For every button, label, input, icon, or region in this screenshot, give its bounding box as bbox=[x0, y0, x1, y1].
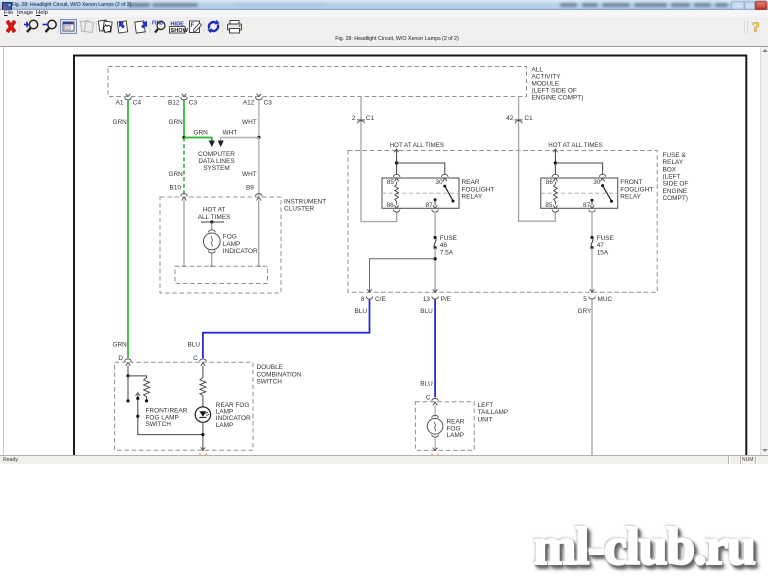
connector 5 MUC bbox=[583, 289, 612, 303]
svg-text:GRY: GRY bbox=[578, 308, 593, 315]
svg-text:COMBINATION: COMBINATION bbox=[257, 371, 302, 378]
relay1 coil bbox=[395, 182, 399, 205]
svg-text:(LEFT SIDE OF: (LEFT SIDE OF bbox=[532, 87, 577, 94]
wire relay2 pin87 to fuse 47 bbox=[591, 212, 593, 238]
node: branch junction bbox=[433, 257, 436, 260]
REAR FOGLIGHT RELAY box U1 bbox=[382, 178, 494, 209]
svg-text:C/E: C/E bbox=[375, 296, 386, 303]
node: relay2 feed junction bbox=[554, 161, 557, 164]
page frame bbox=[74, 56, 746, 456]
gray wire down from 5 MUC bbox=[578, 300, 593, 456]
green wire to computer data arrow bbox=[184, 130, 215, 148]
LEFT TAILLAMP UNIT box bbox=[415, 402, 508, 451]
svg-text:C4: C4 bbox=[133, 100, 142, 107]
svg-text:B9: B9 bbox=[246, 185, 254, 192]
wire fuse 47 down bbox=[591, 248, 593, 293]
relay1 pin86 terminal bbox=[393, 205, 400, 212]
svg-text:85: 85 bbox=[387, 179, 395, 186]
svg-text:5: 5 bbox=[583, 296, 587, 303]
svg-text:LAMP: LAMP bbox=[447, 432, 465, 439]
svg-text:C3: C3 bbox=[189, 100, 198, 107]
svg-text:FOGLIGHT: FOGLIGHT bbox=[620, 186, 653, 193]
zoom-in icon bbox=[24, 20, 38, 32]
svg-text:C1: C1 bbox=[524, 115, 533, 122]
svg-text:HOT AT: HOT AT bbox=[203, 207, 226, 214]
terminal D bbox=[118, 355, 131, 366]
svg-text:FOGLIGHT: FOGLIGHT bbox=[462, 186, 495, 193]
terminal B12/C3 bbox=[168, 94, 197, 107]
disabled pages icon bbox=[80, 20, 93, 32]
page with up-right arrow icon bbox=[135, 21, 147, 33]
relay2 switch arm bbox=[591, 184, 614, 205]
svg-text:BLU: BLU bbox=[420, 381, 433, 388]
zoom-out icon bbox=[43, 20, 57, 32]
svg-text:?: ? bbox=[752, 21, 760, 35]
inner box wire end ticks bbox=[182, 265, 260, 267]
rear fog lamp bbox=[427, 405, 464, 450]
pressed window button bbox=[61, 20, 77, 34]
svg-text:DOUBLE: DOUBLE bbox=[257, 364, 284, 371]
svg-text:42: 42 bbox=[506, 115, 514, 122]
wire feed to pin30 bbox=[397, 163, 445, 175]
svg-text:B10: B10 bbox=[170, 185, 182, 192]
fuse F46 bbox=[434, 235, 458, 256]
svg-text:MODULE: MODULE bbox=[532, 80, 560, 87]
relay2 coil bbox=[554, 182, 558, 205]
wire feed to pin30 bbox=[555, 163, 602, 175]
pages with hand icon bbox=[98, 20, 112, 33]
wire 42|C1 feed bbox=[519, 97, 556, 222]
svg-text:C: C bbox=[426, 394, 431, 401]
svg-text:A1: A1 bbox=[116, 100, 124, 107]
svg-text:C: C bbox=[193, 355, 198, 362]
INSTRUMENT CLUSTER box bbox=[160, 197, 326, 293]
separators bbox=[20, 21, 223, 33]
cluster internal wires bbox=[183, 201, 185, 267]
status bar bbox=[0, 455, 768, 464]
connector 8 C/E bbox=[361, 289, 387, 303]
svg-text:COMPT): COMPT) bbox=[663, 195, 688, 202]
svg-text:GRN: GRN bbox=[113, 342, 128, 349]
svg-text:B12: B12 bbox=[168, 100, 180, 107]
svg-text:87: 87 bbox=[426, 202, 434, 209]
svg-text:SWITCH: SWITCH bbox=[146, 421, 172, 428]
svg-text:7.5A: 7.5A bbox=[440, 249, 454, 256]
svg-text:REAR: REAR bbox=[462, 179, 480, 186]
svg-text:BLU: BLU bbox=[355, 308, 368, 315]
terminal B10 bbox=[181, 194, 188, 201]
node: white junction bbox=[257, 136, 260, 139]
svg-text:GRN: GRN bbox=[169, 171, 184, 178]
svg-text:INDICATOR: INDICATOR bbox=[223, 248, 258, 255]
caption text bbox=[26, 36, 768, 45]
svg-text:8: 8 bbox=[361, 296, 365, 303]
terminal A12/C3 bbox=[243, 94, 272, 107]
svg-text:46: 46 bbox=[440, 242, 448, 249]
COMPUTER DATA LINES SYSTEM label bbox=[198, 151, 235, 172]
refresh icon bbox=[209, 22, 218, 31]
svg-text:FOG: FOG bbox=[223, 234, 237, 241]
white wire to computer data arrow bbox=[218, 130, 259, 148]
FRONT FOGLIGHT RELAY box U2 bbox=[541, 178, 653, 209]
printer icon bbox=[228, 21, 242, 34]
page with pencil icon bbox=[190, 21, 202, 33]
svg-text:MUC: MUC bbox=[598, 296, 613, 303]
relay1 pin85 terminal bbox=[393, 174, 400, 181]
relay1 switch arm bbox=[434, 185, 455, 206]
white wire to B9 bbox=[242, 138, 259, 197]
relay2 pin85 terminal bbox=[552, 205, 559, 212]
svg-text:2: 2 bbox=[352, 115, 356, 122]
svg-text:INSTRUMENT: INSTRUMENT bbox=[284, 199, 326, 206]
svg-text:C3: C3 bbox=[264, 100, 273, 107]
svg-text:DATA LINES: DATA LINES bbox=[198, 158, 234, 165]
svg-text:WHT: WHT bbox=[223, 130, 238, 137]
svg-text:ENGINE: ENGINE bbox=[663, 188, 688, 195]
svg-text:FUSE: FUSE bbox=[597, 235, 615, 242]
svg-text:BLU: BLU bbox=[188, 342, 201, 349]
svg-text:D: D bbox=[118, 355, 123, 362]
taillamp bottom exit bbox=[432, 448, 439, 457]
svg-text:WHT: WHT bbox=[242, 119, 257, 126]
svg-text:ALL TIMES: ALL TIMES bbox=[198, 214, 231, 221]
svg-text:FUSE: FUSE bbox=[440, 235, 458, 242]
svg-text:30: 30 bbox=[435, 179, 443, 186]
svg-text:HOT AT ALL TIMES: HOT AT ALL TIMES bbox=[548, 142, 602, 149]
svg-text:LAMP: LAMP bbox=[216, 422, 234, 429]
SCHEMATIC SVG GOES HERE bbox=[0, 47, 768, 455]
fuse F47 bbox=[590, 235, 614, 256]
svg-text:WHT: WHT bbox=[242, 171, 257, 178]
svg-text:BLU: BLU bbox=[420, 308, 433, 315]
hide/show icon bbox=[170, 22, 189, 35]
relay1 pin30 terminal bbox=[442, 174, 449, 181]
svg-text:TAILLAMP: TAILLAMP bbox=[478, 409, 509, 416]
svg-text:FUSE &: FUSE & bbox=[663, 152, 687, 159]
wire fuse 46 down bbox=[434, 248, 436, 293]
svg-text:86: 86 bbox=[546, 179, 554, 186]
green wire A1/C4 to D bbox=[113, 101, 129, 359]
svg-text:ALL: ALL bbox=[532, 66, 544, 73]
svg-text:SHOW: SHOW bbox=[171, 28, 189, 34]
svg-text:BOX: BOX bbox=[663, 166, 677, 173]
svg-text:15A: 15A bbox=[597, 249, 609, 256]
relay2 pin87 terminal bbox=[589, 205, 596, 212]
svg-text:47: 47 bbox=[597, 242, 605, 249]
ALL ACTIVITY MODULE box bbox=[108, 66, 583, 101]
cluster inner sub-box bbox=[175, 266, 268, 283]
blue wire 13 P/E to taillamp bbox=[420, 300, 435, 398]
svg-text:F: F bbox=[191, 23, 195, 29]
svg-text:SIDE OF: SIDE OF bbox=[663, 181, 689, 188]
HOT AT ALL TIMES (left) bbox=[390, 142, 444, 163]
right separators bbox=[745, 21, 748, 33]
svg-text:13: 13 bbox=[423, 296, 431, 303]
svg-text:RELAY: RELAY bbox=[462, 194, 483, 201]
connector 13 P/E bbox=[423, 289, 452, 303]
page with up-left arrow icon bbox=[117, 21, 127, 33]
svg-text:SWITCH: SWITCH bbox=[257, 379, 283, 386]
white wire A12/C3 bbox=[242, 101, 259, 138]
svg-text:LAMP: LAMP bbox=[223, 241, 241, 248]
svg-text:SYSTEM: SYSTEM bbox=[203, 165, 229, 172]
node: relay1 feed junction bbox=[395, 161, 398, 164]
client drawing area bbox=[0, 47, 768, 455]
close X icon bbox=[7, 21, 15, 32]
switch bottom exit bbox=[200, 447, 207, 456]
wire branch to connector 8 bbox=[370, 259, 436, 293]
svg-text:ENGINE COMPT): ENGINE COMPT) bbox=[532, 94, 584, 101]
terminal C bbox=[193, 355, 206, 366]
find icon bbox=[152, 21, 165, 33]
DOUBLE COMBINATION SWITCH box bbox=[115, 362, 302, 450]
menu bar bbox=[0, 10, 768, 17]
svg-text:A12: A12 bbox=[243, 100, 255, 107]
green wire B12/C3 bbox=[169, 101, 185, 138]
terminal B9 bbox=[256, 194, 263, 201]
svg-text:RELAY: RELAY bbox=[620, 194, 641, 201]
watermark bbox=[533, 517, 760, 577]
node: green junction bbox=[182, 136, 185, 139]
wire 2|C1 feed bbox=[361, 97, 397, 222]
svg-text:LEFT: LEFT bbox=[478, 402, 494, 409]
relay1 pin87 terminal bbox=[432, 205, 439, 212]
svg-text:FRONT: FRONT bbox=[620, 179, 642, 186]
HOT AT ALL TIMES (cluster) bbox=[198, 207, 231, 230]
svg-text:C1: C1 bbox=[366, 115, 375, 122]
terminal A1/C4 bbox=[116, 94, 142, 107]
svg-text:GRN: GRN bbox=[113, 119, 128, 126]
rear fog lamp indicator lamp branch bbox=[195, 366, 251, 450]
svg-text:HOT AT ALL TIMES: HOT AT ALL TIMES bbox=[390, 142, 444, 149]
fog lamp indicator bbox=[203, 230, 258, 266]
svg-text:GRN: GRN bbox=[169, 119, 184, 126]
relay2 pin86 terminal bbox=[552, 174, 559, 181]
connector 42|C1 bbox=[506, 115, 533, 124]
relay2 pin30 terminal bbox=[599, 174, 606, 181]
green dashed wire to B10 bbox=[169, 138, 185, 197]
svg-text:ACTIVITY: ACTIVITY bbox=[532, 73, 562, 80]
front/rear fog lamp switch bbox=[126, 366, 202, 435]
svg-text:30: 30 bbox=[593, 179, 601, 186]
svg-text:CLUSTER: CLUSTER bbox=[284, 206, 314, 213]
toolbar bbox=[0, 17, 768, 47]
FUSE & RELAY BOX bbox=[348, 151, 688, 293]
svg-text:COMPUTER: COMPUTER bbox=[198, 151, 235, 158]
svg-text:87: 87 bbox=[583, 202, 591, 209]
svg-text:UNIT: UNIT bbox=[478, 416, 493, 423]
HOT AT ALL TIMES (right) bbox=[548, 142, 602, 163]
svg-text:GRN: GRN bbox=[194, 130, 209, 137]
svg-text:85: 85 bbox=[545, 202, 553, 209]
connector 2|C1 bbox=[352, 115, 375, 124]
svg-text:86: 86 bbox=[387, 202, 395, 209]
terminal C taillamp bbox=[426, 394, 439, 405]
wire relay1 pin87 to fuse 46 bbox=[434, 212, 436, 238]
blue wire 8 C/E to switch C bbox=[188, 300, 370, 359]
svg-text:(LEFT: (LEFT bbox=[663, 174, 681, 181]
svg-text:RELAY: RELAY bbox=[663, 159, 684, 166]
application title bar bbox=[0, 0, 768, 10]
svg-text:P/E: P/E bbox=[441, 296, 452, 303]
